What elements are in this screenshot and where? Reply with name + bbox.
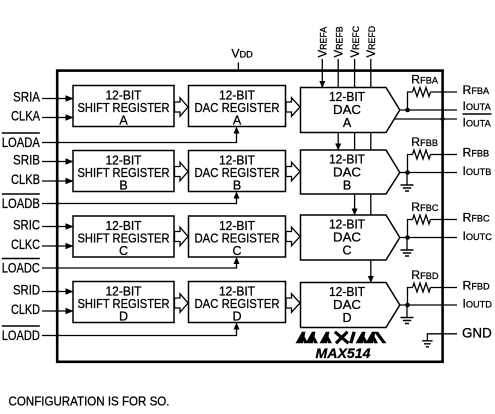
block 12-bit DAC D [301,283,400,328]
wire LOADC [42,257,240,270]
pin IOUTD label [463,297,493,311]
pin VREFD label and wire [366,26,378,283]
wire IOUTC output from DAC C [400,237,457,239]
svg-text:12-BIT: 12-BIT [329,218,365,232]
arrowhead VREFA into DAC A [319,81,325,88]
part number MAX514 [316,345,371,361]
pin SRIC label [13,218,40,233]
bus arrow shift register C to DAC register C [175,227,189,246]
pin SRIB label [13,153,40,168]
pin CLKA label [11,109,40,124]
pin VDD [231,47,253,71]
svg-text:RFBA: RFBA [463,83,491,97]
svg-text:RFBB: RFBB [411,135,438,149]
pin RFBC label [463,211,491,225]
svg-text:LOADC: LOADC [2,261,40,276]
block 12-bit shift register D [73,282,174,324]
svg-text:CLKB: CLKB [11,172,40,187]
svg-text:RFBC: RFBC [411,200,439,214]
bus arrow shift register B to DAC register B [175,162,189,181]
bus arrow DAC register B to DAC B [286,162,300,181]
pin RFBD label [463,279,491,293]
svg-text:LOADA: LOADA [2,135,40,150]
pin RFBA label [463,83,491,97]
pin VREFB label and wire [333,26,345,150]
svg-text:B: B [233,179,241,193]
svg-text:A: A [119,114,128,128]
pin CLKC label [11,237,40,252]
svg-text:12-BIT: 12-BIT [329,90,365,104]
pin RFBB label [463,146,490,160]
wire IOUTB output from DAC B [400,172,457,174]
svg-text:SRIB: SRIB [13,153,40,168]
node output junction A [405,108,410,113]
IC block boundary [57,71,442,362]
wire CLKD [42,308,74,314]
pin IOUTA-bar label (active low) [463,114,492,130]
svg-text:LOADD: LOADD [2,328,40,343]
pin GND wire and label [422,325,492,347]
svg-text:C: C [342,244,351,258]
pin SRIA label [13,90,40,105]
resistor RFBC [408,200,458,238]
svg-text:DAC: DAC [333,298,361,312]
arrowhead VREFC into DAC C [352,209,358,216]
bus arrow DAC register A to DAC A [286,98,300,117]
svg-text:C: C [119,244,128,258]
caption CONFIGURATION IS FOR SO. [9,394,170,409]
wire CLKC [42,243,74,249]
svg-text:A: A [233,114,242,128]
svg-text:VDD: VDD [231,47,253,61]
bus arrow DAC register D to DAC D [286,294,300,313]
wire LOADA [42,127,240,145]
bus arrow shift register A to DAC register A [175,98,189,117]
node output junction D [405,303,410,308]
svg-text:C: C [232,244,241,258]
block 12-bit DAC C [301,215,400,260]
svg-text:IOUTA: IOUTA [463,99,492,113]
svg-text:CLKC: CLKC [11,237,40,252]
svg-text:DAC: DAC [333,166,361,180]
wire inverted output IOUTA-bar [394,117,457,121]
pin CLKD label [11,302,40,317]
wire CLKA [42,114,74,120]
pin LOADC (active low) label [2,259,40,276]
wire SRIA [42,95,74,101]
pin SRID label [13,283,40,298]
svg-text:CLKA: CLKA [11,109,40,124]
svg-text:SRID: SRID [13,283,40,298]
bus arrow shift register D to DAC register D [175,294,189,313]
ground symbol at DAC B inverted output [401,173,414,192]
wire LOADB [42,192,240,206]
svg-text:D: D [232,310,241,324]
pin LOADB (active low) label [2,194,40,211]
svg-text:MAX514: MAX514 [316,345,371,361]
resistor RFBA [408,73,458,111]
svg-text:VREFD: VREFD [366,26,378,58]
svg-text:GND: GND [462,325,492,340]
pin IOUTC label [463,229,493,243]
svg-text:12-BIT: 12-BIT [329,285,365,299]
bus arrow DAC register C to DAC C [286,227,300,246]
pin IOUTA label [463,99,492,113]
svg-text:D: D [342,311,351,325]
pin LOADA (active low) label [2,133,40,150]
resistor RFBB [408,135,458,173]
svg-text:CONFIGURATION IS FOR SO.: CONFIGURATION IS FOR SO. [9,394,170,409]
block 12-bit shift register A [73,86,174,128]
wire CLKB [42,178,74,184]
svg-text:VREFB: VREFB [333,26,345,57]
pin CLKB label [11,172,40,187]
block 12-bit DAC A [301,88,400,133]
arrowhead VREFB into DAC B [335,144,341,151]
svg-text:B: B [343,179,351,193]
pin VREFA label and wire [318,27,330,88]
svg-text:VREFC: VREFC [350,25,362,57]
svg-text:RFBC: RFBC [463,211,491,225]
block 12-bit DAC register C [189,216,286,258]
svg-text:D: D [119,310,128,324]
block 12-bit DAC register D [189,282,286,324]
svg-text:DAC: DAC [333,103,361,117]
ground symbol at DAC C inverted output [401,238,414,257]
svg-text:A: A [343,116,352,130]
svg-text:IOUTC: IOUTC [463,229,493,243]
ground symbol at DAC D inverted output [401,305,414,324]
arrowhead VREFD into DAC D [368,276,374,283]
svg-text:IOUTB: IOUTB [463,164,492,178]
node output junction B [405,170,410,175]
pin IOUTB label [463,164,492,178]
block 12-bit DAC register B [189,151,286,193]
svg-text:SRIA: SRIA [13,90,40,105]
block 12-bit DAC B [301,150,400,194]
svg-text:SRIC: SRIC [13,218,40,233]
wire SRID [42,288,74,294]
MAXIM logo [296,332,387,343]
svg-text:RFBB: RFBB [463,146,490,160]
wire LOADD [42,323,240,338]
svg-text:VREFA: VREFA [318,27,330,58]
wire IOUTD output from DAC D [400,304,457,306]
svg-text:CLKD: CLKD [11,302,40,317]
svg-text:B: B [119,179,127,193]
pin LOADD (active low) label [2,326,40,343]
block 12-bit shift register C [73,216,174,258]
wire IOUTA output from DAC A [400,109,457,111]
resistor RFBD [408,268,458,305]
svg-text:12-BIT: 12-BIT [329,153,365,167]
svg-text:DAC: DAC [333,231,361,245]
wire SRIB [42,158,74,164]
block 12-bit DAC register A [189,86,286,128]
svg-text:IOUTD: IOUTD [463,297,493,311]
svg-text:RFBD: RFBD [463,279,491,293]
wire SRIC [42,223,74,229]
pin VREFC label and wire [350,25,362,215]
svg-text:RFBA: RFBA [411,73,439,87]
svg-text:RFBD: RFBD [411,268,439,282]
node output junction C [405,235,410,240]
svg-text:LOADB: LOADB [2,196,40,211]
block 12-bit shift register B [73,151,174,193]
svg-text:IOUTA: IOUTA [463,116,492,130]
